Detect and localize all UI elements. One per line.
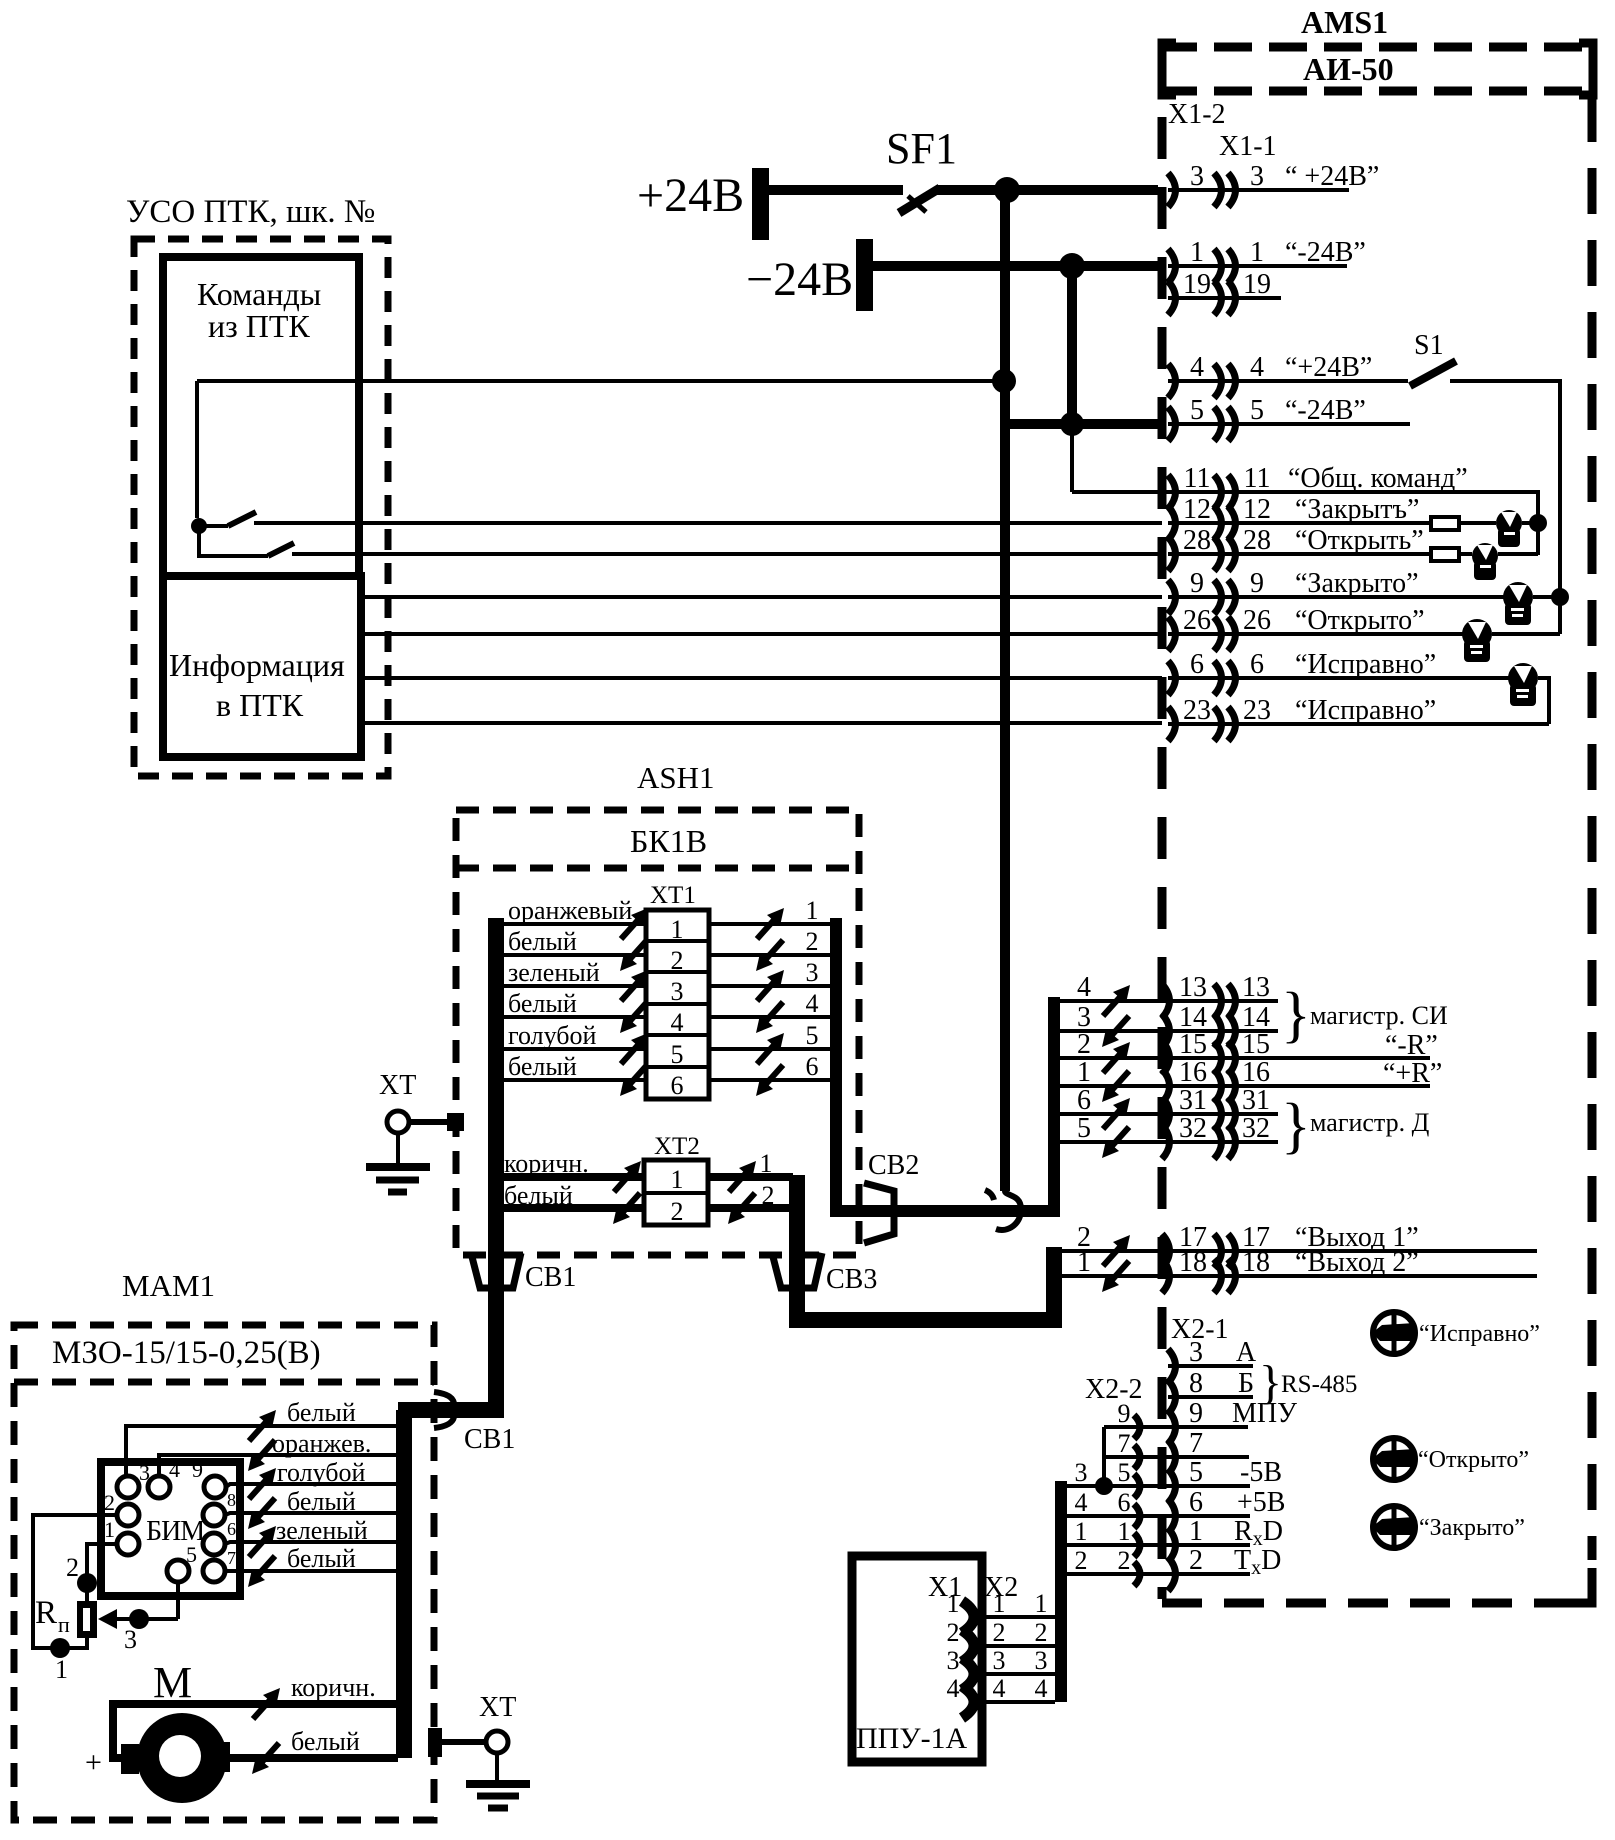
- svg-text:СВ3: СВ3: [826, 1264, 877, 1295]
- svg-text:9: 9: [1118, 1399, 1131, 1428]
- svg-text:18: 18: [1179, 1247, 1207, 1278]
- svg-text:АИ-50: АИ-50: [1303, 51, 1394, 87]
- node command common junction: [191, 518, 207, 534]
- wire XT1 right side pins 1-6: [709, 922, 831, 926]
- svg-text:“Закрыто”: “Закрыто”: [1419, 1515, 1525, 1541]
- svg-text:А: А: [1236, 1337, 1257, 1368]
- pin 26 Открыто row: [1168, 632, 1463, 636]
- svg-text:голубой: голубой: [277, 1458, 366, 1487]
- wire pin 2 loop left: [33, 1515, 117, 1648]
- svg-text:коричн.: коричн.: [291, 1673, 376, 1702]
- pin 5 -24В row: [1168, 422, 1410, 426]
- wire Исправно status line to pin 6: [361, 676, 1162, 680]
- pin 3 БИМ: [117, 1476, 139, 1498]
- svg-text:26: 26: [1183, 605, 1211, 636]
- svg-text:28: 28: [1243, 525, 1271, 556]
- svg-text:3: 3: [671, 977, 684, 1006]
- svg-text:1: 1: [760, 1149, 773, 1178]
- svg-text:М: М: [153, 1658, 192, 1707]
- lamp HL Закрыто: [1372, 1506, 1415, 1548]
- svg-text:Б: Б: [1238, 1368, 1254, 1399]
- svg-text:“ +24В”: “ +24В”: [1285, 161, 1379, 192]
- block БИМ: [101, 1462, 240, 1596]
- svg-text:5: 5: [1118, 1458, 1131, 1487]
- svg-text:3: 3: [1075, 1458, 1088, 1487]
- wire hop of +24В vertical over bus cable: [996, 1191, 1021, 1230]
- wire белый to XT1:4: [496, 1015, 646, 1019]
- connector X1-2 dashed line: [1158, 117, 1167, 1599]
- lamp Исправно: [1508, 663, 1538, 706]
- svg-text:23: 23: [1243, 695, 1271, 726]
- clamp СВ1 on left cable: [471, 1253, 521, 1288]
- pin 19 row: [1168, 296, 1281, 300]
- pin 2 БИМ: [117, 1504, 139, 1526]
- svg-text:“Открыто”: “Открыто”: [1418, 1447, 1529, 1473]
- svg-text:RS-485: RS-485: [1281, 1371, 1357, 1398]
- svg-text:оранжев.: оранжев.: [272, 1429, 371, 1458]
- svg-text:ХТ2: ХТ2: [654, 1133, 700, 1160]
- node junction core 3: [1095, 1477, 1113, 1495]
- svg-text:19: 19: [1183, 269, 1211, 300]
- svg-text:5: 5: [1077, 1113, 1091, 1144]
- svg-text:2: 2: [806, 927, 819, 956]
- lamp Открыто: [1462, 619, 1492, 662]
- svg-text:белый: белый: [508, 1052, 577, 1081]
- wire break marks XT2 right side: [728, 1161, 756, 1224]
- wire +24В rail to SF1: [769, 185, 903, 195]
- wire break marks motor leads: [252, 1688, 280, 1774]
- svg-text:1: 1: [1035, 1589, 1048, 1618]
- pin 5 БИМ: [167, 1560, 189, 1582]
- svg-text:12: 12: [1183, 494, 1211, 525]
- svg-text:белый: белый: [291, 1727, 360, 1756]
- wire break marks БИМ leads: [248, 1410, 276, 1587]
- pin 9 БИМ: [204, 1476, 226, 1498]
- svg-text:6: 6: [227, 1519, 236, 1539]
- pin 4 БИМ: [148, 1476, 170, 1498]
- pin 16 +R row / core 1: [1060, 1084, 1430, 1088]
- svg-text:6: 6: [1250, 649, 1264, 680]
- wire белый to XT1:6: [496, 1078, 646, 1082]
- svg-text:5: 5: [1250, 395, 1264, 426]
- lamp Закрыто: [1503, 582, 1533, 625]
- block Команды из ПТК: [163, 257, 359, 576]
- svg-text:БК1В: БК1В: [630, 823, 707, 859]
- svg-text:+: +: [85, 1746, 102, 1779]
- svg-text:2: 2: [1118, 1546, 1131, 1575]
- pin 7 БИМ: [203, 1560, 225, 1582]
- svg-text:2: 2: [1077, 1029, 1091, 1060]
- cable МАМ1 bundle vertical: [396, 1410, 412, 1758]
- svg-text:ХТ: ХТ: [479, 1692, 516, 1723]
- svg-text:МАМ1: МАМ1: [122, 1268, 215, 1303]
- pin 8 БИМ: [203, 1504, 225, 1526]
- svg-text:1: 1: [993, 1589, 1006, 1618]
- block ППУ-1А: [852, 1556, 982, 1762]
- pin 18 Выход 2 row / core 1: [1060, 1274, 1537, 1278]
- svg-text:из ПТК: из ПТК: [208, 308, 310, 344]
- wire break marks XT1 right side: [756, 908, 784, 1096]
- wire -24В distribution vertical: [1067, 266, 1077, 424]
- wire оранжев. from pin 4: [159, 1455, 396, 1476]
- svg-text:32: 32: [1242, 1113, 1270, 1144]
- svg-text:-5В: -5В: [1240, 1457, 1282, 1488]
- wire Закрыто status line from Информация box to pin 9: [361, 595, 1162, 599]
- svg-text:6: 6: [671, 1071, 684, 1100]
- svg-text:1: 1: [671, 915, 684, 944]
- svg-text:1: 1: [104, 1517, 115, 1542]
- pin 8 RS-485 Б row: [1168, 1395, 1253, 1399]
- svg-text:6: 6: [1190, 649, 1204, 680]
- svg-text:зеленый: зеленый: [276, 1516, 368, 1545]
- svg-text:5: 5: [1189, 1457, 1203, 1488]
- pin 7 row: [1104, 1455, 1249, 1459]
- wire зеленый to XT1:3: [496, 984, 646, 988]
- cable XT2 right bundle down and right: [797, 1175, 1054, 1320]
- svg-text:“-24В”: “-24В”: [1285, 395, 1366, 426]
- svg-text:31: 31: [1179, 1085, 1207, 1116]
- wire ППУ X2 core 4: [986, 1700, 1055, 1704]
- svg-text:“+R”: “+R”: [1383, 1058, 1442, 1089]
- wire +24В rail SF1 to pin 3: [936, 185, 1158, 195]
- wire ППУ X2 core 3: [986, 1672, 1055, 1676]
- svg-text:9: 9: [1250, 568, 1264, 599]
- svg-text:+5В: +5В: [1237, 1487, 1285, 1518]
- svg-text:2: 2: [947, 1618, 960, 1647]
- svg-text:3: 3: [124, 1625, 137, 1654]
- svg-text:11: 11: [1244, 463, 1271, 494]
- pin 6 +5В row: [1067, 1514, 1250, 1518]
- svg-text:оранжевый: оранжевый: [508, 896, 632, 925]
- svg-text:МЗО-15/15-0,25(В): МЗО-15/15-0,25(В): [52, 1335, 321, 1371]
- svg-text:15: 15: [1242, 1029, 1270, 1060]
- wire белый from pin 7: [225, 1569, 396, 1573]
- svg-text:4: 4: [1077, 972, 1091, 1003]
- svg-text:4: 4: [1250, 352, 1264, 383]
- svg-text:AMS1: AMS1: [1301, 4, 1388, 40]
- svg-text:1: 1: [806, 896, 819, 925]
- svg-text:3: 3: [947, 1646, 960, 1675]
- pin 9 Закрыто row: [1168, 595, 1505, 599]
- pin 31 магистр Д row / core 6: [1060, 1112, 1278, 1116]
- svg-text:белый: белый: [287, 1487, 356, 1516]
- wire зеленый from pin 6: [225, 1542, 396, 1544]
- svg-text:15: 15: [1179, 1029, 1207, 1060]
- wire -24В rail to pin 1: [873, 261, 1158, 271]
- svg-text:7: 7: [1118, 1429, 1131, 1458]
- svg-text:“Выход 2”: “Выход 2”: [1295, 1247, 1419, 1278]
- svg-text:X1-1: X1-1: [1219, 131, 1277, 162]
- wire голубой from pin 9: [226, 1484, 396, 1487]
- wire ППУ X2 core 2: [986, 1644, 1055, 1648]
- wire белый from pin 3: [126, 1426, 396, 1476]
- svg-text:“+24В”: “+24В”: [1285, 352, 1372, 383]
- svg-text:5: 5: [671, 1040, 684, 1069]
- svg-text:“Закрытъ”: “Закрытъ”: [1295, 494, 1419, 525]
- node junction lamp 12: [1529, 514, 1547, 532]
- wire +24V command feed from Команды box to pin 4 junction: [197, 379, 1004, 383]
- svg-text:2: 2: [762, 1181, 775, 1210]
- svg-text:ХТ1: ХТ1: [650, 882, 696, 909]
- svg-text:1: 1: [55, 1655, 68, 1684]
- svg-text:9: 9: [1190, 568, 1204, 599]
- svg-text:УСО ПТК, шк. №: УСО ПТК, шк. №: [126, 194, 375, 230]
- svg-text:−24В: −24В: [746, 253, 853, 306]
- svg-text:1: 1: [947, 1589, 960, 1618]
- svg-text:X1-2: X1-2: [1168, 99, 1226, 130]
- pin 1 БИМ: [117, 1533, 139, 1555]
- wire +24В distribution vertical: [1000, 190, 1010, 1191]
- node Rп wiper: [98, 1609, 117, 1629]
- svg-text:магистр. Д: магистр. Д: [1310, 1108, 1430, 1137]
- node junction +24В: [994, 177, 1020, 203]
- svg-text:2: 2: [1075, 1546, 1088, 1575]
- svg-text:1: 1: [1077, 1247, 1091, 1278]
- svg-text:5: 5: [186, 1542, 197, 1567]
- wire XT2 right pin 2: [708, 1204, 793, 1212]
- wire коричн. motor + lead: [113, 1700, 400, 1708]
- svg-text:голубой: голубой: [508, 1021, 597, 1050]
- svg-text:16: 16: [1179, 1057, 1207, 1088]
- wire pin 1 to Rп top: [87, 1544, 117, 1601]
- block АИ-50 right dashed edge: [1588, 96, 1597, 1560]
- svg-text:+24В: +24В: [637, 169, 744, 222]
- svg-text:белый: белый: [508, 989, 577, 1018]
- wire break marks XT2 left side: [613, 1161, 641, 1224]
- svg-text:“Общ. команд”: “Общ. команд”: [1288, 463, 1468, 494]
- node +24В terminal bar: [752, 168, 769, 240]
- svg-text:СВ1: СВ1: [525, 1262, 576, 1293]
- svg-text:“Исправно”: “Исправно”: [1295, 695, 1436, 726]
- svg-text:1: 1: [1118, 1517, 1131, 1546]
- svg-text:8: 8: [227, 1490, 236, 1510]
- svg-text:3: 3: [1189, 1337, 1203, 1368]
- svg-text:11: 11: [1184, 463, 1211, 494]
- svg-text:X2-2: X2-2: [1085, 1374, 1143, 1405]
- wire -24В branch down to Общ. команд: [1070, 430, 1074, 492]
- block УСО ПТК dashed enclosure: [134, 239, 388, 776]
- wire XT2 right pin 1: [708, 1173, 793, 1181]
- clamp СВ3 on right cable: [772, 1253, 822, 1288]
- svg-text:7: 7: [1189, 1428, 1203, 1459]
- svg-text:}: }: [1281, 981, 1311, 1049]
- svg-text:МПУ: МПУ: [1232, 1398, 1297, 1429]
- svg-text:2: 2: [671, 1197, 684, 1226]
- connector X1/X2 ППУ pin marks: [962, 1601, 974, 1633]
- wire белый from pin 8: [225, 1513, 396, 1515]
- wire break marks XT1 left side: [620, 908, 648, 1096]
- lamp HL Открыто: [1372, 1438, 1415, 1480]
- block АИ-50 bottom dashed edge: [1162, 1599, 1592, 1608]
- svg-text:6: 6: [806, 1052, 819, 1081]
- block Информация в ПТК: [163, 576, 361, 757]
- svg-text:8: 8: [1189, 1368, 1203, 1399]
- svg-text:7: 7: [227, 1548, 236, 1568]
- svg-text:магистр. СИ: магистр. СИ: [1310, 1001, 1448, 1030]
- svg-text:3: 3: [1190, 161, 1204, 192]
- lamp optron Открыть: [1472, 543, 1498, 580]
- svg-text:ППУ-1А: ППУ-1А: [856, 1722, 968, 1755]
- node junction pin 4: [992, 369, 1016, 393]
- svg-text:“Открыто”: “Открыто”: [1295, 605, 1425, 636]
- svg-text:“-24В”: “-24В”: [1285, 237, 1366, 268]
- svg-text:4: 4: [671, 1008, 684, 1037]
- pin 6 Исправно row: [1168, 676, 1510, 680]
- svg-text:СВ2: СВ2: [868, 1150, 919, 1181]
- svg-text:1: 1: [671, 1165, 684, 1194]
- switch contact Закрыть (upper): [199, 524, 228, 528]
- pin 3 +24В row: [1168, 188, 1349, 192]
- svg-text:S1: S1: [1414, 330, 1444, 361]
- wire Исправно status line to pin 23: [361, 721, 1162, 725]
- svg-text:13: 13: [1242, 972, 1270, 1003]
- svg-text:R: R: [35, 1595, 57, 1631]
- pin 28 Открыть row: [1168, 552, 1431, 556]
- block БК1В dashed enclosure: [456, 810, 859, 1255]
- cable bundle to ППУ-1А: [1055, 1481, 1067, 1702]
- node -24В terminal bar: [856, 239, 873, 311]
- pin 23 Исправно row: [1168, 722, 1549, 726]
- svg-text:12: 12: [1243, 494, 1271, 525]
- pin 3 RS-485 А row: [1168, 1364, 1253, 1368]
- svg-text:2: 2: [993, 1618, 1006, 1647]
- svg-text:4: 4: [947, 1674, 960, 1703]
- svg-text:1: 1: [1189, 1516, 1203, 1547]
- svg-text:“Открыть”: “Открыть”: [1295, 525, 1424, 556]
- pin 9 МПУ row: [1104, 1425, 1248, 1429]
- svg-text:ХТ: ХТ: [379, 1070, 416, 1101]
- cable МАМ1 bundle elbow to СВ1: [398, 1330, 496, 1410]
- pin 4 +24В row: [1168, 379, 1408, 383]
- svg-text:зеленый: зеленый: [508, 958, 600, 987]
- svg-text:1: 1: [1190, 237, 1204, 268]
- wire оранжевый to XT1:1: [496, 922, 646, 926]
- svg-text:4: 4: [1035, 1674, 1048, 1703]
- svg-text:9: 9: [1189, 1398, 1203, 1429]
- svg-text:19: 19: [1243, 269, 1271, 300]
- svg-text:23: 23: [1183, 695, 1211, 726]
- svg-text:3: 3: [993, 1646, 1006, 1675]
- svg-text:ASH1: ASH1: [637, 760, 715, 795]
- svg-text:4: 4: [1190, 352, 1204, 383]
- pin 13 магистр row / core 4: [1060, 999, 1278, 1003]
- svg-text:коричн.: коричн.: [504, 1149, 589, 1178]
- svg-text:п: п: [58, 1612, 70, 1637]
- wire -24В branch to pin 5: [1005, 419, 1158, 429]
- wire X2-2 cores 9-7-5 tie: [1102, 1427, 1106, 1486]
- pin 5 -5В row: [1067, 1484, 1250, 1488]
- wire коричн. to XT2:1: [500, 1173, 644, 1181]
- pin 32 магистр Д row / core 5: [1060, 1140, 1278, 1144]
- svg-text:5: 5: [806, 1021, 819, 1050]
- wire vertical inside Команды box: [195, 381, 199, 518]
- pin 17 Выход 1 row / core 2: [1060, 1249, 1537, 1253]
- svg-text:белый: белый: [287, 1544, 356, 1573]
- wire break marks cable cores 13-32: [1102, 985, 1130, 1158]
- wire белый motor - lead: [229, 1754, 398, 1762]
- wire Открыто status line to pin 26: [361, 632, 1162, 636]
- connector X2-2 pin marks: [1134, 1415, 1140, 1439]
- node junction pin 5: [1060, 412, 1084, 436]
- svg-text:2: 2: [66, 1553, 79, 1582]
- svg-text:“Исправно”: “Исправно”: [1419, 1321, 1540, 1347]
- svg-text:13: 13: [1179, 972, 1207, 1003]
- resistor on Открыть line: [1431, 548, 1459, 561]
- svg-text:белый: белый: [504, 1181, 573, 1210]
- node junction lamps supply: [1551, 588, 1569, 606]
- svg-text:СВ1: СВ1: [464, 1424, 515, 1455]
- pin 6 БИМ: [203, 1533, 225, 1555]
- svg-text:3: 3: [1035, 1646, 1048, 1675]
- svg-text:“-R”: “-R”: [1385, 1030, 1438, 1061]
- pin 2 TxD row: [1067, 1572, 1250, 1576]
- wire break marks cable cores 17-18: [1102, 1235, 1130, 1292]
- svg-text:2: 2: [1189, 1545, 1203, 1576]
- clamp СВ2 on bus cable: [864, 1183, 894, 1243]
- svg-text:6: 6: [1077, 1085, 1091, 1116]
- pin 1 -24В row: [1168, 264, 1347, 268]
- svg-text:3: 3: [1250, 161, 1264, 192]
- svg-text:4: 4: [993, 1674, 1006, 1703]
- svg-text:Информация: Информация: [169, 647, 345, 683]
- pin 12 Закрыть row: [1168, 521, 1431, 525]
- clamp СВ1 at МАМ1 entry: [434, 1392, 454, 1406]
- motor M: [121, 1713, 230, 1803]
- resistor on Закрыть line: [1431, 517, 1459, 530]
- svg-text:белый: белый: [508, 927, 577, 956]
- svg-text:28: 28: [1183, 525, 1211, 556]
- svg-text:3: 3: [806, 958, 819, 987]
- cable БК1В left bundle: [488, 918, 504, 1410]
- svg-text:1: 1: [1075, 1517, 1088, 1546]
- switch contact Открыть (lower): [199, 526, 268, 556]
- wire ППУ X2 core 1: [986, 1615, 1055, 1619]
- svg-text:1: 1: [1077, 1057, 1091, 1088]
- svg-text:4: 4: [806, 989, 819, 1018]
- svg-text:31: 31: [1242, 1085, 1270, 1116]
- svg-text:16: 16: [1242, 1057, 1270, 1088]
- pin 1 RxD row: [1067, 1543, 1250, 1547]
- wire голубой to XT1:5: [496, 1047, 646, 1051]
- svg-text:4: 4: [169, 1457, 180, 1482]
- wire белый to XT2:2: [500, 1204, 644, 1212]
- pin 15 -R row / core 2: [1060, 1056, 1430, 1060]
- svg-text:6: 6: [1118, 1488, 1131, 1517]
- svg-text:2: 2: [104, 1490, 115, 1515]
- wire белый to XT1:2: [496, 953, 646, 957]
- node junction 1: [50, 1638, 70, 1658]
- svg-text:в ПТК: в ПТК: [216, 687, 304, 723]
- svg-text:}: }: [1281, 1092, 1311, 1160]
- cable XT1 right bundle down and right: [836, 918, 1054, 1211]
- lamp optron Закрыть: [1496, 510, 1522, 547]
- wire Закрыть command line to pin 12: [254, 521, 1162, 525]
- pin 11 Общ. команд row: [1072, 492, 1538, 555]
- node junction -24В: [1059, 253, 1085, 279]
- svg-text:9: 9: [192, 1457, 203, 1482]
- svg-text:Команды: Команды: [197, 276, 321, 312]
- pin 14 магистр row / core 3: [1060, 1029, 1278, 1033]
- svg-text:18: 18: [1242, 1247, 1270, 1278]
- svg-text:5: 5: [1190, 395, 1204, 426]
- svg-text:32: 32: [1179, 1113, 1207, 1144]
- block МАМ1 dashed enclosure: [14, 1325, 434, 1820]
- svg-text:2: 2: [1035, 1618, 1048, 1647]
- svg-text:белый: белый: [287, 1398, 356, 1427]
- svg-text:1: 1: [1250, 237, 1264, 268]
- lamp HL Исправно: [1372, 1312, 1415, 1354]
- svg-text:“Закрыто”: “Закрыто”: [1295, 568, 1419, 599]
